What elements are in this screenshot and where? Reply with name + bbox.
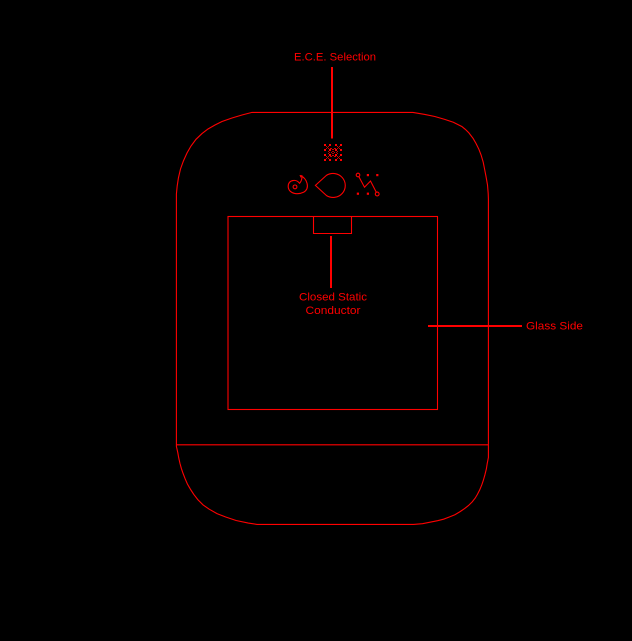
- bottom chevron: [332, 155, 334, 156]
- svg-text:Closed Static: Closed Static: [299, 291, 368, 303]
- inner glass rectangle: [228, 217, 438, 410]
- droplet icon: [315, 173, 345, 197]
- intermittent zigzag icon: [356, 173, 379, 196]
- top-left X: [324, 144, 326, 146]
- center diamond: [332, 151, 334, 152]
- bottom-right X: [335, 154, 337, 156]
- bottom-left X: [324, 154, 326, 156]
- connector notch: [314, 217, 352, 234]
- recirculation spiral icon: [288, 176, 307, 194]
- glass side leader line: [428, 325, 522, 327]
- right bracket: [337, 151, 338, 152]
- top chevron: [330, 148, 332, 149]
- conductor leader line: [330, 236, 332, 288]
- svg-text:E.C.E. Selection: E.C.E. Selection: [294, 52, 376, 64]
- E.C.E. leader line: [331, 67, 333, 139]
- top-right X: [335, 144, 337, 146]
- belt line: [176, 444, 488, 446]
- svg-text:Glass Side: Glass Side: [526, 321, 583, 333]
- device body outline: [176, 112, 488, 524]
- svg-text:Conductor: Conductor: [306, 305, 361, 317]
- spiral tip arrowhead: [299, 175, 302, 178]
- left bracket: [328, 151, 329, 152]
- snowflake icon: [324, 144, 342, 161]
